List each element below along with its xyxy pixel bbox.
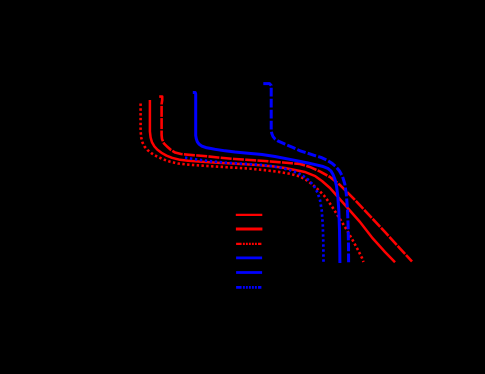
curve red dashed thick (series 2 red) bbox=[159, 97, 412, 262]
curve blue dashed (series 2 blue) bbox=[263, 84, 348, 263]
curve blue solid (series 1 blue) bbox=[193, 93, 340, 264]
curve blue dotted (series 3 blue) bbox=[185, 158, 324, 263]
curve red dotted (series 3 red) bbox=[141, 104, 364, 263]
legend line 2: red solid thick bbox=[236, 227, 263, 230]
legend line 1: red solid thin bbox=[236, 214, 262, 216]
legend line 6: blue dotted bbox=[236, 286, 261, 289]
curve red solid thin (series 1 red) bbox=[150, 100, 395, 262]
legend line 4: blue solid bbox=[236, 257, 262, 260]
legend line 3: red dotted bbox=[236, 243, 261, 245]
legend line 5: blue solid bbox=[236, 271, 262, 274]
